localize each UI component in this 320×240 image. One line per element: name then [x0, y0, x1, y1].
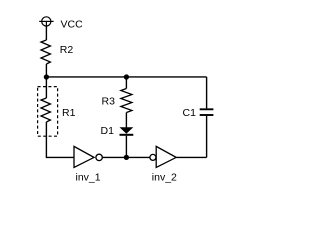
svg-text:D1: D1 [101, 125, 115, 137]
svg-text:VCC: VCC [61, 19, 84, 31]
dashed selection box around R1 [38, 87, 58, 137]
svg-text:inv_1: inv_1 [76, 172, 101, 184]
wire D1 to node C [125, 136, 127, 158]
diode D1 [120, 127, 134, 135]
node A junction dot [44, 74, 49, 79]
wire R3 to D1 [125, 113, 127, 128]
wire C1 bottom to inv_2 output [206, 116, 208, 157]
wire top rail [46, 76, 206, 78]
inverter inv_2 [150, 146, 176, 167]
resistor R1 [41, 98, 50, 122]
wire node A down to R1 [45, 77, 47, 98]
wire inv_2 output to right rail [176, 156, 206, 158]
capacitor C1 [200, 109, 214, 115]
svg-text:inv_2: inv_2 [152, 172, 177, 184]
wire inv_1 output to node C [102, 156, 126, 158]
resistor R2 [41, 40, 50, 64]
wire R1 down and to inv_1 input [46, 122, 74, 157]
resistor R3 [121, 89, 132, 113]
power VCC symbol [39, 17, 53, 26]
wire VCC to R2 [45, 26, 47, 40]
wire node B down to R3 [125, 77, 127, 89]
svg-text:C1: C1 [183, 107, 197, 119]
wire node C to inv_2 input bubble [126, 156, 149, 158]
wire R2 to node A [45, 64, 47, 77]
svg-text:R1: R1 [62, 107, 76, 119]
node C junction dot [124, 155, 129, 160]
inverter inv_1 [74, 146, 102, 167]
node B junction dot [124, 74, 129, 79]
wire right rail top [206, 77, 208, 109]
svg-text:R2: R2 [60, 44, 74, 56]
svg-text:R3: R3 [102, 95, 116, 107]
